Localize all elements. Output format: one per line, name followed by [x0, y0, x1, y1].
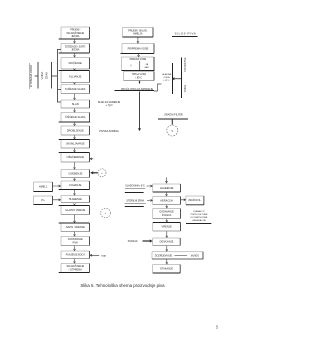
svg-text:DOZRIJEVANJE: DOZRIJEVANJE [155, 254, 173, 257]
arrow [74, 246, 76, 251]
arrow [166, 246, 168, 251]
thick arrow kvasac into CB5 [143, 240, 151, 242]
wire vline2 [181, 58, 183, 99]
box B6 [61, 100, 90, 108]
svg-text:KUHANJE: KUHANJE [69, 183, 81, 187]
arrow [74, 162, 76, 169]
arrow [74, 83, 76, 85]
svg-text:trop: trop [102, 255, 107, 258]
wire rotated label rule [29, 63, 31, 89]
svg-text:PIVA: PIVA [73, 241, 79, 244]
bracket main left [57, 49, 61, 102]
box B10 [59, 153, 90, 163]
arrow [74, 204, 76, 206]
svg-text:PIVSKA KOMINA: PIVSKA KOMINA [99, 130, 119, 133]
svg-text:GLAVNO VRENJE: GLAVNO VRENJE [65, 209, 85, 212]
svg-text:HLAĐENJE: HLAĐENJE [160, 186, 174, 190]
svg-text:KLIJANJE: KLIJANJE [69, 74, 81, 78]
svg-text:HMELJA: HMELJA [133, 33, 143, 36]
wire vline1 [172, 63, 174, 94]
svg-text:SILOS PIVA: SILOS PIVA [175, 31, 197, 35]
svg-text:PRIPREMA VODE: PRIPREMA VODE [128, 47, 149, 50]
thick arrow D1 to B11 [93, 172, 98, 174]
box RB2 [121, 44, 155, 54]
box CB1 [153, 184, 181, 192]
arrow [74, 69, 76, 71]
arrow hmelj to B12 [53, 185, 61, 187]
svg-text:MOČENJE: MOČENJE [69, 60, 82, 65]
box CB3 [153, 209, 181, 219]
svg-text:5: 5 [216, 325, 219, 330]
bracket inner pair [35, 62, 57, 89]
box CB2 [153, 197, 181, 205]
svg-text:HLADNA: HLADNA [162, 73, 171, 76]
svg-text:HLAĐENJE: HLAĐENJE [69, 198, 82, 201]
arrow [74, 190, 76, 195]
svg-text:ODVAJANJE: ODVAJANJE [159, 241, 173, 244]
svg-text:KVASAC: KVASAC [128, 240, 138, 243]
svg-text:+: + [105, 211, 107, 215]
arrow CB2 to R1 [181, 199, 186, 201]
box B5 [61, 85, 90, 94]
svg-text:DROBLJENJE: DROBLJENJE [67, 128, 84, 132]
arrow Pu to B13 [53, 199, 61, 201]
arrow [74, 122, 76, 125]
arrow [166, 192, 168, 196]
svg-text:OBRADA VODE: OBRADA VODE [129, 58, 146, 61]
svg-text:SLAD: SLAD [72, 102, 79, 106]
box B18 [59, 264, 90, 273]
box Pu [34, 196, 53, 205]
box R1 [186, 196, 204, 205]
box B1 [59, 27, 90, 39]
arrow into CB1 [166, 178, 168, 184]
svg-text:+ H2O: + H2O [106, 104, 113, 108]
box B12 [59, 181, 90, 190]
arrow [74, 148, 76, 152]
svg-text:VODA: VODA [40, 71, 44, 79]
svg-text:ZRAK: ZRAK [45, 72, 49, 79]
svg-text:VRENJE: VRENJE [162, 225, 173, 229]
svg-text:+: + [101, 171, 103, 175]
box CB7 [153, 265, 181, 274]
svg-text:MLADO: MLADO [191, 254, 199, 257]
svg-text:t°: t° [130, 65, 132, 68]
svg-text:GENERACIJE: GENERACIJE [192, 219, 207, 222]
arrow [74, 232, 76, 236]
arrow [166, 219, 168, 222]
thick tick RB4 down [139, 81, 141, 84]
svg-text:SLADOVINA t 8°C: SLADOVINA t 8°C [125, 185, 145, 188]
arrow [74, 39, 76, 43]
svg-text:v: v [172, 129, 174, 133]
arrow [166, 259, 168, 264]
svg-text:SUŠENJE SLADA: SUŠENJE SLADA [65, 88, 86, 91]
box RB4 [124, 72, 154, 81]
fan unit circle [167, 125, 178, 136]
arrow into B10 right [90, 158, 93, 160]
arrow [74, 215, 76, 223]
box B16 [61, 237, 90, 246]
svg-text:ČISTE KULTURE: ČISTE KULTURE [190, 213, 208, 216]
pump symbol D1 [98, 169, 106, 177]
box B15 [59, 223, 90, 232]
arrow [74, 94, 76, 100]
box B4 [59, 71, 90, 83]
wire dark bottom B7 ext [60, 121, 91, 123]
arrow [74, 135, 76, 139]
box RB3 split [122, 57, 155, 71]
arrow [74, 178, 76, 181]
svg-text:I OTPREMA: I OTPREMA [69, 268, 83, 271]
arrow [166, 231, 168, 237]
arrow [74, 259, 76, 263]
wire long drop [139, 92, 141, 131]
svg-text:NAKN. VRENJE: NAKN. VRENJE [66, 225, 85, 229]
arrow L2 to CB2 [147, 199, 152, 201]
svg-text:PUNJENJE BOCA: PUNJENJE BOCA [66, 254, 85, 257]
box B7 [59, 113, 90, 123]
svg-text:t 12°C: t 12°C [163, 79, 170, 82]
svg-text:ČIŠĆENJE SLADA: ČIŠĆENJE SLADA [65, 116, 86, 119]
svg-text:OTAKANJE: OTAKANJE [160, 268, 173, 271]
fan unit line [158, 119, 188, 125]
svg-text:POVRATNA: POVRATNA [183, 57, 187, 71]
label voda block [162, 73, 171, 82]
svg-text:ILI PRETHODNE: ILI PRETHODNE [191, 217, 208, 219]
box B3 [61, 58, 90, 70]
label L1 sladovina [125, 185, 146, 193]
svg-text:UKOMLJAVANJE: UKOMLJAVANJE [66, 143, 85, 146]
arrow trop out of B17 [90, 254, 99, 256]
svg-text:KVASCA: KVASCA [162, 214, 172, 217]
box B2 [59, 44, 90, 54]
box B17 [61, 251, 90, 259]
svg-text:KVASAC IZ: KVASAC IZ [193, 210, 205, 213]
svg-text:ZRAČNI FIL.: ZRAČNI FIL. [188, 199, 202, 202]
svg-text:TOPLA VODA: TOPLA VODA [132, 73, 147, 76]
svg-text:VODA: VODA [163, 76, 170, 79]
svg-text:Pu: Pu [41, 198, 45, 202]
arrow [74, 108, 76, 112]
box B9 [59, 140, 90, 149]
wire crossbar [173, 78, 182, 80]
wire elbow to voda block [154, 84, 162, 91]
arrow [74, 53, 76, 57]
svg-text:Slika 5. Tehnološka shema proi: Slika 5. Tehnološka shema proizvodnje pi… [80, 283, 165, 288]
arrow [138, 54, 140, 57]
box CB6 wide [152, 252, 203, 259]
svg-text:JEČMA: JEČMA [71, 49, 80, 52]
box B13 [61, 196, 90, 203]
svg-text:VAR.: VAR. [144, 66, 149, 69]
pump symbol D2 [101, 208, 111, 218]
arrow [166, 205, 168, 208]
svg-text:HMELJ: HMELJ [39, 186, 48, 189]
box CB5 [153, 238, 181, 246]
box B8 [61, 126, 90, 135]
svg-text:STERILNI ZRAK: STERILNI ZRAK [126, 199, 144, 202]
box B11 [61, 170, 90, 178]
arrow [137, 37, 139, 43]
svg-text:AERACIJA: AERACIJA [160, 198, 173, 202]
svg-text:CIJEĐENJE: CIJEĐENJE [68, 171, 82, 175]
svg-text:JEČMA: JEČMA [71, 35, 80, 38]
arrow L1 to CB1 [147, 185, 153, 187]
label L2 sterilni zrak [125, 199, 146, 206]
box hmelj [34, 182, 53, 192]
box CB4 [153, 223, 181, 232]
box RB1 [123, 28, 154, 38]
svg-text:VODA: VODA [183, 85, 187, 93]
svg-text:ZRAČNI FILTER: ZRAČNI FILTER [164, 113, 183, 116]
svg-text:OŠEĆERENJE: OŠEĆERENJE [66, 154, 84, 159]
svg-text:ZA: ZA [145, 63, 148, 66]
svg-text:OTPADNA VODA: OTPADNA VODA [29, 65, 33, 87]
svg-text:t 80°C: t 80°C [136, 76, 143, 79]
note R2 [186, 210, 211, 223]
box B14 [59, 206, 90, 215]
